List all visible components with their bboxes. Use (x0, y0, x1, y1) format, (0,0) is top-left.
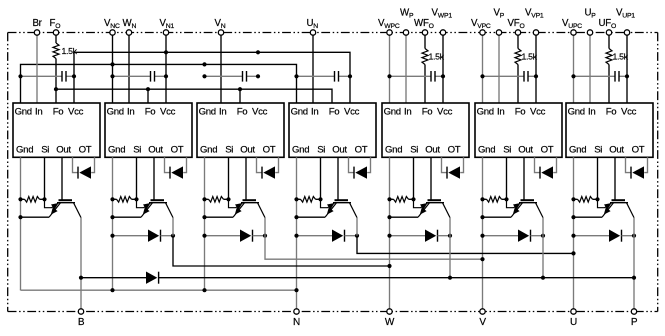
wire block5 Gnd vertical down to terminal W (389, 157, 391, 308)
wire Q2 collector to node W (phase W low-side) (173, 236, 390, 266)
svg-text:OT: OT (632, 145, 645, 156)
wire block6 Si pin to gate node (506, 157, 508, 199)
junction FWD anode / Gnd line block4 (294, 234, 298, 238)
terminal P pin circle (631, 309, 636, 314)
junction C2 vcc side (164, 74, 168, 78)
junction Rg5 left / Gnd line (387, 197, 391, 201)
wire terminal VVP1 to block6 Vcc (535, 33, 537, 104)
svg-text:Fo: Fo (53, 106, 64, 117)
wire terminal Fo lead (55, 33, 57, 44)
wire gate resistor lead block3 (205, 198, 209, 200)
wire block3 Gnd vertical down to N rail (204, 157, 206, 290)
diode D2 (freewheel) (148, 230, 159, 242)
junction FWD anode / Gnd line block6 (480, 234, 484, 238)
svg-text:In: In (588, 106, 595, 117)
diode D3 (freewheel) (240, 230, 251, 242)
junction C6 gnd side (480, 74, 484, 78)
wire block5 OT loop (442, 157, 448, 172)
junction Vcc rail / VN1 (164, 50, 168, 54)
terminal VUP1 pin circle (624, 30, 629, 35)
wire Fo resistor to block1 Fo pin (55, 59, 57, 104)
wire block2 Gnd vertical down to N rail (112, 157, 114, 290)
junction Rg4 left / Gnd line (294, 197, 298, 201)
junction emitter/Gnd line block2 (110, 215, 114, 219)
junction C7 vcc side (625, 74, 629, 78)
wire gate resistor to Si node block4 (316, 198, 321, 200)
transistor Q7 IGBT (598, 199, 635, 217)
wire FWD D7 cathode lead (622, 235, 635, 237)
diode D6 (freewheel) (518, 230, 529, 242)
svg-text:Gnd: Gnd (15, 106, 32, 117)
junction FWD cathode / collector block6 (541, 234, 545, 238)
junction Rg3 left / Gnd line (202, 197, 206, 201)
wire Q4 collector drop (upper, gray) (356, 218, 358, 236)
wire terminal Br to block1 In (36, 33, 38, 104)
junction Gnd rail / VNC (110, 62, 114, 66)
wire block4 Gnd vertical down to terminal N (296, 157, 298, 308)
wire gate resistor to Si node block3 (224, 198, 229, 200)
wire Q3 emitter to Gnd line (205, 216, 234, 218)
wire terminal VUPC to block7 Gnd (573, 33, 575, 104)
resistor R2 1.5k (WFo pull) (422, 49, 428, 65)
transistor Q5 IGBT (414, 199, 451, 217)
terminal VVPC pin circle (480, 30, 485, 35)
wire terminal WFo lead (424, 33, 426, 49)
terminal UP pin circle (587, 30, 592, 35)
diode D3t (OT sense diode) (263, 166, 275, 178)
svg-text:1.5k: 1.5k (522, 52, 538, 62)
svg-text:Br: Br (33, 18, 43, 29)
wire brake line from B (81, 277, 146, 279)
svg-text:Si: Si (503, 145, 511, 156)
junction Rg2 left / Gnd line (110, 197, 114, 201)
wire terminal VP to block6 In (498, 33, 500, 104)
svg-text:OT: OT (171, 145, 184, 156)
wire FWD D5 cathode lead (438, 235, 451, 237)
junction Si node block4 (318, 197, 322, 201)
wire capacitor C2 leads (113, 75, 151, 77)
svg-text:Out: Out (56, 145, 71, 156)
junction Si node block5 (411, 197, 415, 201)
op-amp U1 gate-driver IC block (13, 103, 100, 157)
diode D5 (freewheel) (425, 230, 436, 242)
diode D8 (brake clamp B to P) (146, 272, 157, 284)
svg-text:Out: Out (240, 145, 255, 156)
svg-text:Gnd: Gnd (569, 145, 586, 156)
wire Q5 emitter to Gnd line (390, 216, 419, 218)
svg-text:Fo: Fo (329, 106, 340, 117)
wire block2 OT loop (165, 157, 171, 172)
wire block2 Si pin to gate node (136, 157, 138, 199)
wire block4 Si pin to gate node (320, 157, 322, 199)
wire FWD D3 cathode lead (253, 235, 266, 237)
svg-text:In: In (219, 106, 226, 117)
wire block7 Gnd vertical down to terminal U (573, 157, 575, 308)
wire FWD D2 cathode lead (161, 235, 174, 237)
terminal B pin circle (78, 309, 83, 314)
svg-text:Gnd: Gnd (16, 145, 33, 156)
junction Rg7 left / Gnd line (571, 197, 575, 201)
terminal VUPC pin circle (571, 30, 576, 35)
svg-text:P: P (631, 317, 638, 328)
junction emitter/Gnd line block4 (294, 215, 298, 219)
op-amp U3 gate-driver IC block (197, 103, 284, 157)
junction FWD cathode / collector block4 (355, 234, 359, 238)
svg-text:Vcc: Vcc (530, 106, 546, 117)
junction FWD anode / Gnd line block7 (571, 234, 575, 238)
wire block1 Gnd vertical down (20, 157, 22, 290)
wire terminal WP to block5 In (405, 33, 407, 104)
junction C7 gnd side (571, 74, 575, 78)
resistor Rg1 (gate-emitter) (25, 197, 40, 203)
terminal W pin circle (387, 309, 392, 314)
wire Q5 collector to P rail (449, 218, 451, 278)
wire Q3 collector to node V (phase V low-side) (265, 218, 483, 260)
op-amp U4 gate-driver IC block (289, 103, 376, 157)
capacitor C4 (Vcc-Gnd decoupling) (334, 71, 336, 82)
svg-text:Gnd: Gnd (384, 106, 401, 117)
junction FWD anode / Gnd line block5 (387, 234, 391, 238)
svg-text:Si: Si (225, 145, 233, 156)
wire node N rail (emitters of blocks 1-4) (21, 289, 297, 291)
wire block3 Out pin to IGBT gate (245, 157, 247, 200)
svg-text:In: In (311, 106, 318, 117)
wire gate resistor lead block4 (297, 198, 301, 200)
terminal Br pin circle (34, 30, 39, 35)
svg-text:Si: Si (594, 145, 602, 156)
svg-text:N: N (293, 317, 300, 328)
wire gate resistor lead block2 (113, 198, 117, 200)
svg-text:Vcc: Vcc (621, 106, 637, 117)
svg-text:Out: Out (518, 145, 533, 156)
junction C2 gnd side (110, 74, 114, 78)
svg-text:Fo: Fo (145, 106, 156, 117)
svg-text:OT: OT (79, 145, 92, 156)
junction Si node block3 (226, 197, 230, 201)
op-amp U2 gate-driver IC block (105, 103, 192, 157)
diode D4t (OT sense diode) (355, 166, 367, 178)
svg-text:Vcc: Vcc (437, 106, 453, 117)
wire terminal VVPC to block6 Gnd (482, 33, 484, 104)
capacitor C7 (floating supply decoupling) (614, 71, 616, 82)
svg-text:In: In (497, 106, 504, 117)
svg-text:1.5k: 1.5k (429, 52, 445, 62)
diode D5t (OT sense diode) (448, 166, 460, 178)
terminal VN1 pin circle (163, 30, 168, 35)
wire terminal VUP1 to block7 Vcc (626, 33, 628, 104)
svg-text:Vcc: Vcc (252, 106, 268, 117)
resistor Rg7 (gate-emitter) (578, 197, 593, 203)
svg-text:OT: OT (355, 145, 368, 156)
terminal UFo pin circle (606, 30, 611, 35)
wire FWD D2 anode lead (113, 235, 149, 237)
wire block4 OT loop (349, 157, 355, 172)
junction node V (480, 257, 484, 261)
junction Vcc rail / block3 Vcc (256, 50, 260, 54)
wire Q6 emitter to Gnd line (483, 216, 512, 218)
wire capacitor C6 leads (483, 75, 525, 77)
wire block6 Out pin to IGBT gate (523, 157, 525, 200)
svg-text:Gnd: Gnd (292, 145, 309, 156)
junction Si node block6 (504, 197, 508, 201)
diode D7t (OT sense diode) (632, 166, 644, 178)
terminal WN pin circle (126, 30, 131, 35)
wire Gnd rail (N-side control ground, VNC to blocks 1-4 Gnd) (21, 64, 297, 103)
junction node W (387, 264, 391, 268)
junction Fo rail / block1 Fo (54, 87, 58, 91)
junction emitter/Gnd line block3 (202, 215, 206, 219)
junction C4 vcc side (348, 74, 352, 78)
wire block7 Si pin to gate node (597, 157, 599, 199)
capacitor C3 (Vcc-Gnd decoupling) (242, 71, 244, 82)
svg-text:OT: OT (448, 145, 461, 156)
svg-text:Out: Out (609, 145, 624, 156)
junction FWD cathode / collector block5 (448, 234, 452, 238)
svg-text:Gnd: Gnd (108, 145, 125, 156)
svg-text:Vcc: Vcc (160, 106, 176, 117)
svg-text:1.5k: 1.5k (62, 46, 78, 56)
junction FWD cathode / collector block2 (171, 234, 175, 238)
capacitor C1 (Vcc-Gnd decoupling) (61, 71, 63, 82)
wire block7 OT loop (626, 157, 632, 172)
wire VFo resistor to block6 Fo pin (517, 65, 519, 104)
svg-text:Si: Si (317, 145, 325, 156)
junction Q6 collector / P rail (541, 276, 545, 280)
terminal VNC pin circle (110, 30, 115, 35)
wire FWD D4 cathode lead (345, 235, 358, 237)
terminal VP pin circle (496, 30, 501, 35)
terminal VWP1 pin circle (440, 30, 445, 35)
op-amp U7 gate-driver IC block (566, 103, 653, 157)
wire Q6 collector to P rail (542, 218, 544, 278)
wire FWD D4 anode lead (297, 235, 333, 237)
svg-text:Fo: Fo (606, 106, 617, 117)
junction emitter/Gnd line block1 (18, 215, 22, 219)
wire UFo resistor to block7 Fo pin (608, 65, 610, 104)
junction FWD anode / Gnd line block2 (110, 234, 114, 238)
svg-text:Gnd: Gnd (385, 145, 402, 156)
op-amp U6 gate-driver IC block (475, 103, 562, 157)
capacitor C2 (Vcc-Gnd decoupling) (150, 71, 152, 82)
junction Q7 collector / P rail (632, 276, 636, 280)
junction Si node block7 (595, 197, 599, 201)
wire gate resistor to Si node block2 (132, 198, 137, 200)
junction Rg1 left / Gnd line (18, 197, 22, 201)
wire block1 Out pin to IGBT gate (61, 157, 63, 200)
terminal WFo pin circle (422, 30, 427, 35)
svg-text:In: In (127, 106, 134, 117)
resistor R3 1.5k (VFo pull) (515, 49, 521, 65)
op-amp U5 gate-driver IC block (382, 103, 469, 157)
wire block1 Gnd corner to N rail (20, 289, 22, 292)
wire FWD D6 anode lead (483, 235, 519, 237)
wire terminal WN to block2 In (128, 33, 130, 104)
svg-text:Si: Si (41, 145, 49, 156)
wire Q1 collector to terminal B (80, 218, 82, 309)
terminal N pin circle (294, 309, 299, 314)
wire block3 Fo pin stub (239, 89, 241, 103)
terminal VN pin circle (218, 30, 223, 35)
junction C5 gnd side (387, 74, 391, 78)
junction C1 gnd side (18, 74, 22, 78)
wire terminal VWPC to block5 Gnd (389, 33, 391, 104)
resistor Rg4 (gate-emitter) (301, 197, 316, 203)
svg-text:Si: Si (133, 145, 141, 156)
svg-text:Vcc: Vcc (344, 106, 360, 117)
wire capacitor C1 leads (21, 75, 63, 77)
wire gate resistor to Si node block5 (409, 198, 414, 200)
capacitor C5 (floating supply decoupling) (430, 71, 432, 82)
wire terminal UP to block7 In (589, 33, 591, 104)
wire block7 Out pin to IGBT gate (614, 157, 616, 200)
junction C3 gnd side (202, 74, 206, 78)
wire brake line to P (159, 277, 634, 279)
wire Q1 emitter to Gnd line (21, 216, 50, 218)
terminal V pin circle (480, 309, 485, 314)
svg-text:Si: Si (410, 145, 418, 156)
capacitor C6 (floating supply decoupling) (523, 71, 525, 82)
terminal U pin circle (571, 309, 576, 314)
wire Q7 emitter to Gnd line (574, 216, 603, 218)
junction Si node block1 (42, 197, 46, 201)
junction FWD cathode / collector block7 (632, 234, 636, 238)
svg-text:Fo: Fo (422, 106, 433, 117)
svg-text:Gnd: Gnd (107, 106, 124, 117)
wire gate resistor lead block6 (483, 198, 487, 200)
wire capacitor C7 leads (574, 75, 616, 77)
wire Q2 emitter to Gnd line (113, 216, 142, 218)
wire block3 Si pin to gate node (228, 157, 230, 199)
wire gate resistor to Si node block6 (502, 198, 507, 200)
wire Q4 emitter to Gnd line (297, 216, 326, 218)
junction C3 vcc side (256, 74, 260, 78)
wire FWD D5 anode lead (390, 235, 426, 237)
wire terminal VN1 to block2 Vcc (165, 33, 167, 104)
wire block4 Out pin to IGBT gate (337, 157, 339, 200)
svg-text:1.5k: 1.5k (613, 52, 629, 62)
svg-text:Gnd: Gnd (200, 145, 217, 156)
svg-text:Out: Out (425, 145, 440, 156)
terminal WP pin circle (403, 30, 408, 35)
resistor R1 1.5k (Fo pull) (53, 43, 59, 59)
svg-text:OT: OT (263, 145, 276, 156)
junction node U (571, 251, 575, 255)
diode D4 (freewheel) (332, 230, 343, 242)
wire block2 Out pin to IGBT gate (153, 157, 155, 200)
svg-text:Fo: Fo (515, 106, 526, 117)
junction C5 vcc side (441, 74, 445, 78)
svg-text:OT: OT (541, 145, 554, 156)
transistor Q3 IGBT (229, 199, 266, 217)
wire Q2 collector drop (upper, gray) (172, 218, 174, 236)
transistor Q1 IGBT (45, 199, 82, 217)
wire terminal VNC to block2 Gnd (112, 33, 114, 104)
wire Fo rail (fault output, blocks 1-4 Fo) (56, 89, 332, 103)
svg-text:W: W (385, 317, 395, 328)
wire capacitor C3 leads (205, 75, 243, 77)
diode D1t (OT sense diode) (79, 166, 91, 178)
terminal UN pin circle (310, 30, 315, 35)
wire terminal UN to block4 In (312, 33, 314, 104)
wire Vcc rail (N-side supply, VN1 to blocks 1-4 Vcc) (74, 52, 350, 103)
resistor Rg2 (gate-emitter) (117, 197, 132, 203)
svg-text:U: U (570, 317, 577, 328)
wire gate resistor to Si node block7 (593, 198, 598, 200)
transistor Q2 IGBT (137, 199, 174, 217)
diode D6t (OT sense diode) (541, 166, 553, 178)
diode D2t (OT sense diode) (171, 166, 183, 178)
resistor Rg3 (gate-emitter) (209, 197, 224, 203)
wire block2 Fo pin stub (147, 89, 149, 103)
svg-text:In: In (35, 106, 42, 117)
svg-text:Gnd: Gnd (477, 106, 494, 117)
terminal VFo pin circle (515, 30, 520, 35)
junction Gnd rail / block3 Gnd (202, 62, 206, 66)
junction Si node block2 (134, 197, 138, 201)
wire terminal VWP1 to block5 Vcc (442, 33, 444, 104)
svg-text:In: In (404, 106, 411, 117)
wire Q7 collector to terminal P (633, 218, 635, 309)
junction B / brake diode line (79, 276, 83, 280)
junction emitter/Gnd line block7 (571, 215, 575, 219)
junction FWD anode / Gnd line block3 (202, 234, 206, 238)
wire WFo resistor to block5 Fo pin (424, 65, 426, 104)
transistor Q6 IGBT (507, 199, 544, 217)
wire gate resistor lead block1 (21, 198, 25, 200)
terminal VVP1 pin circle (533, 30, 538, 35)
junction emitter/Gnd line block5 (387, 215, 391, 219)
junction Rg6 left / Gnd line (480, 197, 484, 201)
resistor Rg6 (gate-emitter) (487, 197, 502, 203)
wire capacitor C4 leads (297, 75, 335, 77)
svg-text:Gnd: Gnd (291, 106, 308, 117)
wire gate resistor to Si node block1 (40, 198, 45, 200)
wire block6 Gnd vertical down to terminal V (482, 157, 484, 308)
wire block3 OT loop (257, 157, 263, 172)
diode D7 (freewheel) (609, 230, 620, 242)
svg-text:Gnd: Gnd (568, 106, 585, 117)
junction C4 gnd side (294, 74, 298, 78)
transistor Q4 IGBT (321, 199, 358, 217)
junction emitter/Gnd line block6 (480, 215, 484, 219)
svg-text:Gnd: Gnd (478, 145, 495, 156)
wire terminal VFo lead (517, 33, 519, 49)
svg-text:Fo: Fo (237, 106, 248, 117)
svg-text:Out: Out (332, 145, 347, 156)
wire block1 OT loop (73, 157, 79, 172)
wire block6 OT loop (535, 157, 541, 172)
terminal Fo pin circle (53, 30, 58, 35)
junction Fo rail / block2 Fo (146, 87, 150, 91)
junction Q5 collector / P rail (448, 276, 452, 280)
svg-text:V: V (479, 317, 486, 328)
svg-text:Out: Out (148, 145, 163, 156)
junction N rail / block2 (110, 288, 114, 292)
wire terminal UFo lead (608, 33, 610, 49)
wire FWD D3 anode lead (205, 235, 241, 237)
junction C1 vcc side (72, 74, 76, 78)
wire gate resistor lead block5 (390, 198, 394, 200)
wire block1 Si pin to gate node (44, 157, 46, 199)
svg-text:Gnd: Gnd (199, 106, 216, 117)
wire Q4 collector to node U (phase U low-side) (357, 236, 574, 254)
resistor R4 1.5k (UFo pull) (606, 49, 612, 65)
wire block5 Si pin to gate node (413, 157, 415, 199)
junction N rail / block3 (202, 288, 206, 292)
junction FWD cathode / collector block3 (263, 234, 267, 238)
junction C6 vcc side (534, 74, 538, 78)
junction N rail / block4 (terminal N) (294, 288, 298, 292)
